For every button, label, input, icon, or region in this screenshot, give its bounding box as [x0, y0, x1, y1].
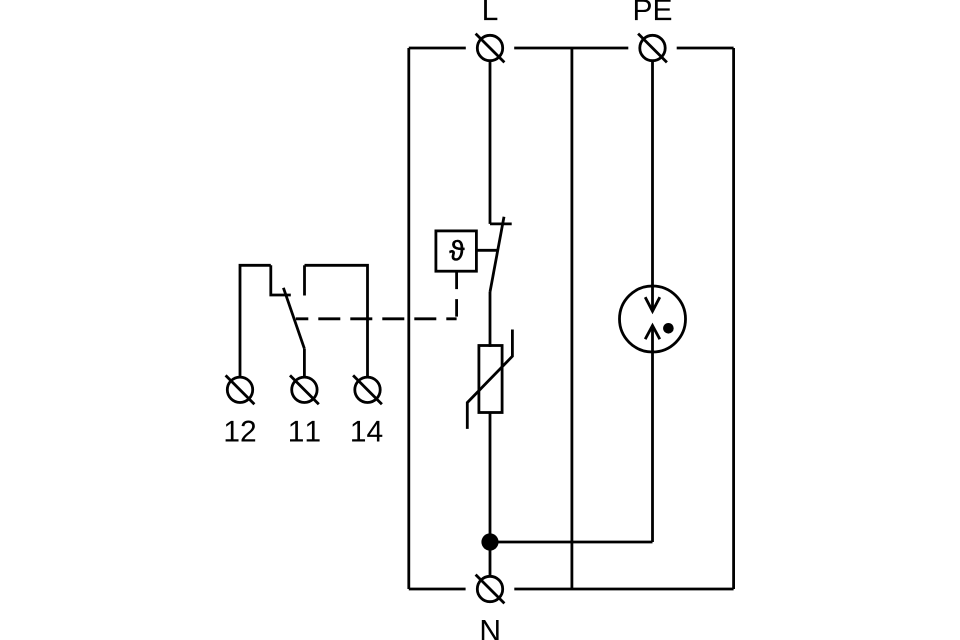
- wire spark gap down: [651, 326, 654, 542]
- dashed trip linkage horizontal: [296, 317, 457, 320]
- enclosure divider: [571, 48, 574, 589]
- wire L to disconnector: [489, 61, 492, 224]
- changeover blade: [283, 288, 304, 349]
- enclosure top edge: [409, 47, 734, 50]
- label 12: [226, 421, 256, 442]
- enclosure right edge: [732, 48, 735, 589]
- junction node: [481, 533, 498, 550]
- wire blade to varistor: [489, 292, 492, 347]
- terminal 14: [353, 375, 382, 404]
- terminal 11: [290, 375, 319, 404]
- wire terminal 14 up: [305, 265, 368, 377]
- link thermal box to blade: [476, 249, 497, 252]
- varistor diagonal: [467, 330, 512, 429]
- contact 14 fixed stub: [303, 265, 306, 295]
- label PE: [635, 0, 671, 20]
- terminal L: [476, 34, 505, 63]
- spark gap lower arrowhead: [645, 326, 660, 340]
- wire varistor to N: [489, 413, 492, 577]
- terminal N: [476, 575, 505, 604]
- enclosure left edge: [407, 48, 410, 589]
- disconnector blade: [490, 217, 504, 292]
- contact 12 fixed: [271, 265, 291, 295]
- disconnector fixed contact: [490, 222, 512, 225]
- label L: [484, 0, 497, 20]
- dashed trip linkage vertical: [455, 272, 458, 319]
- terminal 12: [226, 375, 255, 404]
- wire junction to spark gap branch: [490, 541, 653, 544]
- terminal PE: [638, 34, 667, 63]
- spark gap indicator dot: [663, 323, 674, 334]
- spark gap upper arrowhead: [645, 297, 660, 311]
- enclosure bottom edge: [409, 588, 734, 591]
- wire blade to terminal 11: [303, 349, 306, 377]
- theta symbol: [449, 240, 464, 260]
- label 14: [352, 421, 382, 442]
- thermal box: [436, 231, 477, 271]
- spark gap circle: [620, 286, 686, 352]
- label N: [482, 620, 499, 640]
- varistor: [479, 346, 502, 413]
- wire PE to spark gap: [651, 61, 654, 312]
- label 11: [290, 421, 320, 442]
- wire terminal 12 up: [240, 265, 271, 377]
